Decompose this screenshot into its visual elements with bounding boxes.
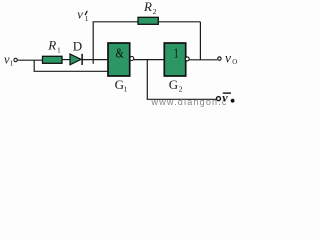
resistor R1	[43, 56, 63, 63]
diode D	[70, 54, 81, 65]
node vo terminal	[218, 57, 221, 60]
inverter G2 box	[164, 43, 185, 76]
svg-text:G: G	[115, 77, 124, 92]
wire G2 to output	[189, 59, 217, 61]
and-gate G1 output bubble	[130, 57, 134, 61]
and-gate G1 box	[108, 43, 130, 76]
svg-text:&: &	[116, 45, 124, 61]
inverter G2 output bubble	[185, 57, 189, 61]
svg-text:O: O	[232, 58, 237, 66]
svg-text:2: 2	[153, 7, 157, 16]
svg-text:1: 1	[124, 84, 128, 93]
svg-text:v: v	[77, 8, 83, 22]
node v1' vertical wire	[92, 22, 94, 64]
svg-text:1: 1	[10, 59, 14, 68]
resistor R2	[138, 17, 158, 24]
svg-text:v: v	[225, 50, 231, 65]
wire junction down	[33, 60, 35, 71]
wire G1 to G2	[134, 59, 165, 61]
wire R1 to diode	[62, 59, 70, 61]
label vo-bar	[223, 92, 231, 94]
wire junction down to vo-bar	[146, 60, 148, 100]
wire feedback right vertical	[199, 22, 201, 60]
svg-text:R: R	[143, 0, 152, 14]
svg-text:G: G	[169, 77, 178, 92]
svg-text:1: 1	[57, 46, 61, 55]
svg-text:D: D	[73, 38, 82, 53]
wire bottom branch	[34, 70, 108, 72]
node v1 terminal	[14, 58, 17, 61]
node vo-bar terminal	[217, 97, 221, 101]
svg-text:R: R	[47, 37, 56, 52]
svg-text:1: 1	[85, 14, 89, 23]
svg-text:v: v	[222, 91, 228, 105]
svg-text:2: 2	[179, 85, 183, 94]
wire diode to gate G1	[82, 59, 108, 61]
wire input	[18, 59, 43, 61]
wire bottom to vo-bar terminal	[147, 98, 217, 100]
wire top feedback	[93, 21, 201, 23]
svg-text:1: 1	[174, 44, 179, 61]
